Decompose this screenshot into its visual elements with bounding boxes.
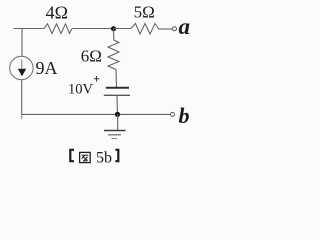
wire bottom horizontal — [22, 113, 171, 115]
current source arrow (downward) — [21, 60, 23, 69]
wire ground stub — [117, 114, 119, 129]
terminal b open circle — [171, 112, 175, 116]
battery V1 10V bottom plate — [104, 94, 130, 96]
ground symbol line 2 — [108, 134, 121, 136]
ground symbol line 3 — [112, 138, 118, 140]
caption CJK character tu (figure) — [80, 152, 91, 162]
wire top-left horizontal segment — [14, 28, 45, 30]
wire middle branch upper stub — [113, 29, 115, 41]
wire left vertical lower segment — [21, 79, 23, 114]
battery plus sign — [94, 76, 99, 82]
wire left vertical overshoot tail — [21, 114, 23, 119]
node bottom junction dot — [115, 112, 120, 117]
svg-text:4Ω: 4Ω — [46, 3, 68, 23]
svg-text:9A: 9A — [36, 58, 58, 78]
wire top-right segment to 5ohm — [114, 28, 132, 30]
svg-text:10V: 10V — [68, 81, 94, 97]
resistor 4ohm (R top-left) — [44, 24, 72, 34]
wire top-middle segment — [72, 28, 114, 30]
svg-text:b: b — [179, 103, 190, 128]
wire left vertical upper segment — [21, 29, 23, 57]
wire from battery to bottom wire — [116, 95, 119, 114]
resistor 6ohm (R middle, vertical) — [108, 40, 119, 70]
node top junction dot — [111, 26, 116, 31]
wire to terminal a — [159, 28, 172, 30]
wire from 6ohm to battery — [115, 70, 118, 88]
current source I1 9A circle — [10, 56, 33, 79]
ground symbol line 1 — [104, 130, 126, 132]
terminal a open circle — [173, 27, 177, 31]
caption left lenticular bracket — [70, 150, 74, 161]
svg-text:5Ω: 5Ω — [134, 3, 155, 22]
svg-text:6Ω: 6Ω — [81, 46, 102, 65]
caption right lenticular bracket — [115, 150, 118, 161]
resistor 5ohm (R top-right) — [131, 24, 159, 35]
svg-text:5b: 5b — [96, 150, 112, 167]
battery V1 10V top plate — [106, 87, 129, 89]
svg-text:a: a — [179, 14, 191, 39]
